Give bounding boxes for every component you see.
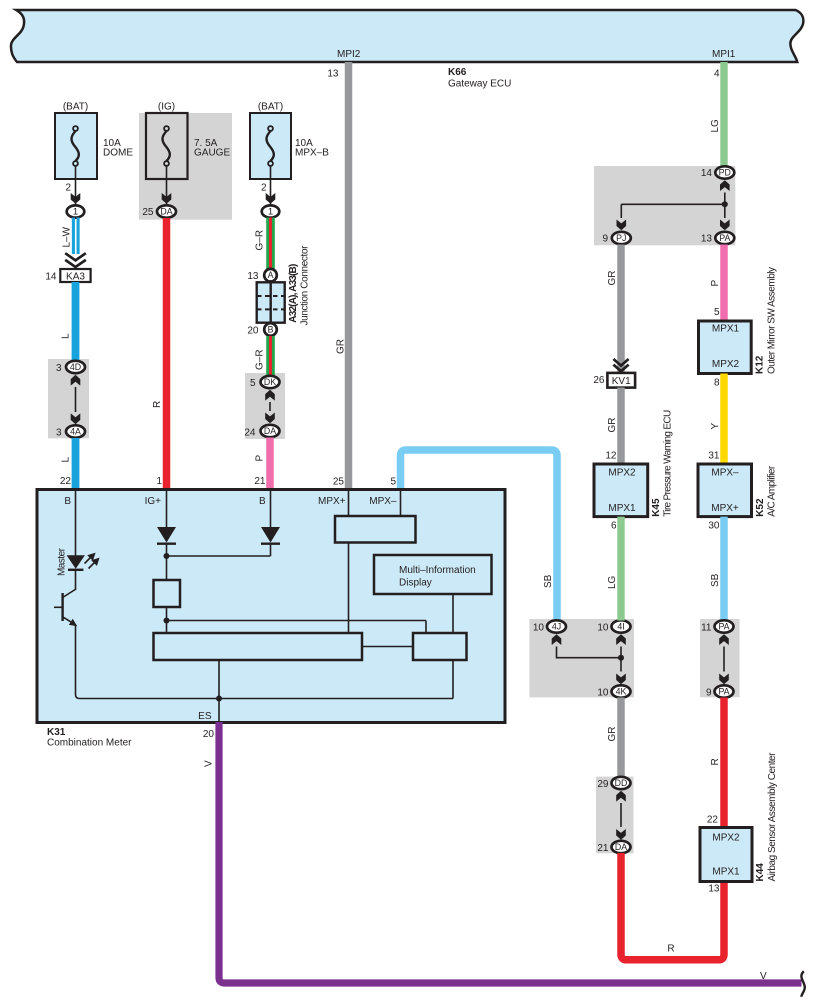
connector 4A pin 3 (56, 425, 85, 438)
svg-text:13: 13 (327, 69, 339, 80)
wire L (blue) 4A to meter pin 22 (60, 438, 76, 489)
shaded block around GAUGE fuse (139, 113, 232, 220)
shaded block around connectors 4J/4I/4K (529, 619, 634, 697)
svg-text:5: 5 (390, 477, 396, 488)
fuse 10A MPX-B (BAT) (250, 102, 329, 180)
svg-text:MPX1: MPX1 (608, 503, 636, 514)
connector 1 (MPX-B) (262, 205, 280, 217)
svg-text:21: 21 (254, 476, 266, 487)
connector B pin 20 (247, 323, 276, 336)
svg-text:Multi–Information: Multi–Information (399, 565, 476, 576)
node dot 4J/4I join (618, 655, 624, 661)
svg-text:DD: DD (615, 778, 628, 788)
wire SB (sky blue) meter pin 5 to connector 4J (390, 450, 557, 621)
shaded block around connectors PA/PA (700, 619, 740, 697)
connector DA pin 24 (244, 425, 279, 439)
svg-text:Tire Pressure Warning ECU: Tire Pressure Warning ECU (663, 410, 674, 517)
mating arrows DD to DA (616, 791, 626, 840)
node dot regulator branch (164, 618, 170, 624)
internal wire driver block to ES rail (452, 660, 454, 699)
connector 4J pin 10 (533, 620, 566, 633)
svg-text:GAUGE: GAUGE (194, 147, 230, 158)
svg-text:1: 1 (156, 476, 162, 487)
svg-text:V: V (760, 971, 767, 982)
connector PA pin 11 (701, 620, 733, 633)
internal wire LED to transistor (75, 571, 77, 590)
svg-text:MPX1: MPX1 (712, 324, 740, 335)
svg-text:4A: 4A (70, 427, 81, 437)
svg-text:10: 10 (597, 688, 609, 699)
node dot PD branch (722, 201, 728, 207)
diode D2 (B) (261, 527, 280, 544)
svg-text:3: 3 (56, 427, 62, 438)
connector 4I pin 10 (597, 620, 630, 633)
fuse 7.5A GAUGE (IG) (146, 102, 230, 180)
svg-text:Master: Master (57, 547, 68, 576)
internal wire MPX block to logic block (348, 543, 350, 634)
connector DK pin 5 (250, 376, 280, 389)
svg-text:26: 26 (593, 375, 605, 386)
internal wire pin1 IG+ (166, 491, 168, 527)
svg-text:20: 20 (203, 729, 215, 740)
svg-text:DK: DK (264, 377, 276, 387)
wire GR (gray) PJ to KV1 (607, 245, 621, 374)
svg-text:9: 9 (706, 688, 712, 699)
svg-text:P: P (255, 455, 266, 462)
driver block (small) (413, 633, 467, 660)
internal wire transistor emitter to ES rail (76, 625, 454, 699)
svg-text:GR: GR (335, 339, 346, 354)
continuation squiggle on wire V (801, 971, 804, 997)
internal wire pin21 B (270, 491, 272, 527)
svg-text:8: 8 (714, 378, 720, 389)
svg-text:1: 1 (268, 207, 273, 218)
wire G-R (green/red) connector 1 to junction connector A (255, 218, 271, 270)
svg-text:IG+: IG+ (145, 496, 162, 507)
wire L-W (blue/white) connector 1 to KA3 (62, 218, 79, 255)
svg-text:DA: DA (160, 207, 172, 217)
shaded block around connectors PD/PJ/PA (594, 166, 735, 245)
wire G-R (green/red) junction connector B to DK (255, 336, 271, 376)
wire LG (light green) K45 pin 6 to connector 4I (607, 517, 621, 621)
svg-text:PA: PA (719, 233, 730, 243)
svg-text:V: V (204, 760, 215, 767)
mating arrows 4I to 4K (616, 634, 626, 684)
K44 Airbag Sensor Assembly Center (700, 752, 778, 882)
mating arrows DK to DA (265, 390, 275, 424)
K52 A/C Amplifier (698, 464, 778, 517)
internal wire regulator to logic (167, 607, 427, 633)
svg-text:B: B (259, 496, 266, 507)
svg-text:MPX2: MPX2 (712, 832, 740, 843)
svg-text:3: 3 (56, 363, 62, 374)
logic block (long) (154, 633, 363, 660)
svg-text:2: 2 (261, 182, 267, 193)
node ES (198, 696, 222, 741)
svg-text:14: 14 (45, 272, 57, 283)
svg-text:Junction Connector: Junction Connector (300, 245, 311, 326)
svg-text:A: A (268, 270, 274, 280)
svg-text:DA: DA (615, 842, 627, 852)
svg-text:PJ: PJ (616, 233, 626, 243)
svg-text:14: 14 (701, 168, 713, 179)
connector DD pin 29 (597, 777, 630, 790)
svg-text:SB: SB (710, 573, 721, 587)
wire fuse DOME pin 2 to connector 1 (65, 166, 80, 206)
svg-text:(IG): (IG) (158, 102, 175, 113)
svg-text:22: 22 (60, 476, 72, 487)
svg-text:4D: 4D (70, 362, 81, 372)
svg-text:DOME: DOME (103, 147, 133, 158)
svg-text:L–W: L–W (62, 226, 73, 247)
svg-text:(BAT): (BAT) (258, 102, 283, 113)
svg-text:K45: K45 (651, 498, 662, 517)
svg-text:R: R (667, 944, 674, 955)
wire R (red) DA to K44 pin 13 (621, 853, 724, 960)
junction connector A32(A), A33(B) (257, 245, 311, 326)
shaded block around connectors DD/DA (596, 777, 634, 854)
svg-text:24: 24 (244, 427, 256, 438)
wire R (red) PA to K44 pin 22 (707, 698, 724, 828)
svg-text:SB: SB (543, 574, 554, 588)
svg-text:PD: PD (719, 168, 731, 178)
svg-text:B: B (268, 325, 274, 335)
connector A pin 13 (247, 269, 276, 282)
internal wire logic block to ES node (218, 660, 220, 722)
svg-text:30: 30 (708, 521, 720, 532)
svg-text:21: 21 (597, 843, 609, 854)
svg-text:MPX+: MPX+ (711, 503, 739, 514)
wire Y (yellow) K12 pin 8 to K52 pin 31 (708, 374, 724, 466)
svg-text:31: 31 (708, 451, 720, 462)
mating arrows 4J branch (552, 634, 621, 658)
node dot diode join (164, 553, 170, 559)
svg-text:6: 6 (611, 521, 617, 532)
svg-text:B: B (64, 496, 71, 507)
svg-text:L: L (61, 457, 72, 463)
shaded block around connectors DK/DA (245, 373, 285, 439)
connector 4D pin 3 (56, 361, 85, 374)
svg-text:MPI1: MPI1 (712, 49, 736, 60)
connector PA pin 9 (706, 685, 734, 698)
wire P (pink) DA to meter pin 21 (254, 438, 270, 490)
splice chevron on GR wire (613, 359, 628, 371)
svg-text:PA: PA (718, 622, 729, 632)
svg-text:11: 11 (701, 623, 712, 634)
svg-text:Display: Display (399, 578, 432, 589)
svg-text:K52: K52 (755, 498, 766, 517)
wire LG (light green) bus MPI1 pin 4 to connector PD (710, 62, 724, 167)
svg-text:KA3: KA3 (66, 271, 85, 282)
svg-text:Y: Y (710, 423, 721, 430)
combination meter K31 body (37, 490, 505, 749)
svg-text:MPX1: MPX1 (712, 867, 740, 878)
svg-text:GR: GR (607, 727, 618, 742)
internal wire diodes to node (167, 544, 271, 580)
svg-text:25: 25 (333, 477, 345, 488)
svg-text:25: 25 (142, 207, 154, 218)
svg-text:5: 5 (250, 378, 256, 389)
diode D1 (IG+) (157, 527, 176, 544)
K12 Outer Mirror SW Assembly (699, 267, 778, 374)
K45 Tire Pressure Warning ECU (594, 410, 674, 517)
svg-text:K66: K66 (448, 67, 467, 78)
svg-text:K31: K31 (47, 727, 66, 738)
svg-text:22: 22 (707, 815, 719, 826)
svg-text:13: 13 (247, 271, 259, 282)
svg-text:K44: K44 (755, 863, 766, 882)
svg-text:MPX2: MPX2 (712, 359, 740, 370)
svg-text:Outer Mirror SW Assembly: Outer Mirror SW Assembly (766, 267, 777, 374)
svg-text:Gateway ECU: Gateway ECU (448, 79, 511, 90)
svg-text:K12: K12 (755, 355, 766, 374)
connector PJ pin 9 (602, 232, 630, 245)
svg-text:LG: LG (607, 575, 618, 589)
svg-text:LG: LG (710, 119, 721, 133)
svg-text:L: L (61, 333, 72, 339)
bus bar MPI (CAN trunk) across top (11, 10, 803, 62)
wire L (blue) KA3 to connector 4D (61, 282, 76, 361)
wire GR (gray) KV1 to K45 pin 12 (605, 388, 621, 466)
svg-text:4K: 4K (616, 687, 627, 697)
MPX transceiver block (335, 516, 416, 543)
splice chevron on L-W wire (65, 253, 86, 267)
svg-text:4I: 4I (617, 622, 624, 632)
svg-text:Airbag Sensor Assembly Center: Airbag Sensor Assembly Center (767, 752, 778, 882)
wire fuse MPX-B pin 2 to connector 1 (261, 166, 275, 206)
svg-text:GR: GR (607, 418, 618, 433)
svg-text:MPX–B: MPX–B (295, 147, 329, 158)
wire R (red) connector DA to meter pin 1 (152, 218, 167, 489)
internal wire pin25 MPX+ (348, 491, 350, 516)
wire SB (sky blue) K52 pin 30 to connector PA (708, 517, 724, 621)
svg-text:KV1: KV1 (612, 376, 631, 387)
Multi-Information Display block (374, 555, 492, 594)
mating arrows 4D to 4A (71, 375, 81, 424)
svg-text:MPX–: MPX– (369, 496, 397, 507)
junction block KA3 pin 14 (45, 269, 90, 283)
wire fuse GAUGE to connector DA pin 25 (142, 166, 171, 218)
svg-text:R: R (710, 758, 721, 765)
internal wire logic to driver (362, 646, 413, 648)
svg-text:13: 13 (701, 234, 713, 245)
svg-text:4: 4 (714, 69, 720, 80)
wire GR (gray) 4K to connector DD (607, 698, 621, 778)
svg-text:4J: 4J (552, 622, 561, 632)
connector DA pin 21 (597, 841, 630, 854)
svg-text:A/C Amplifier: A/C Amplifier (767, 465, 778, 517)
svg-text:G–R: G–R (255, 349, 266, 370)
svg-text:P: P (710, 280, 721, 287)
svg-text:ES: ES (198, 711, 212, 722)
internal wire display to driver block (452, 594, 454, 633)
fuse 10A DOME (BAT) (55, 102, 133, 180)
regulator block (154, 580, 181, 607)
connector 1 (DOME) (67, 205, 85, 217)
junction block KV1 pin 26 (593, 373, 635, 388)
svg-text:20: 20 (247, 325, 259, 336)
svg-text:(BAT): (BAT) (63, 102, 88, 113)
svg-text:A32(A), A33(B): A32(A), A33(B) (288, 264, 299, 323)
transistor Q (master indicator driver) (54, 589, 77, 626)
svg-text:29: 29 (597, 779, 609, 790)
svg-text:MPX–: MPX– (711, 467, 739, 478)
svg-text:MPX+: MPX+ (318, 496, 346, 507)
svg-text:DA: DA (264, 426, 276, 436)
connector 4K pin 10 (597, 685, 630, 698)
shaded block around connectors 4D/4A (48, 359, 89, 438)
svg-text:10: 10 (533, 623, 545, 634)
mating arrows PD to PA and branch to PJ (617, 180, 730, 230)
internal wire pin5 MPX- (400, 491, 402, 516)
svg-text:Combination Meter: Combination Meter (47, 738, 132, 749)
svg-text:G–R: G–R (255, 230, 266, 251)
svg-text:MPX2: MPX2 (608, 467, 636, 478)
svg-text:10: 10 (597, 623, 609, 634)
connector PA pin 13 (701, 232, 734, 245)
connector PD pin 14 (701, 166, 734, 179)
wire V (violet) meter pin 20 to right edge (204, 722, 802, 983)
svg-text:9: 9 (602, 234, 608, 245)
svg-text:PA: PA (718, 687, 729, 697)
mating arrows PA to PA (719, 634, 729, 684)
svg-text:1: 1 (73, 207, 78, 218)
svg-text:2: 2 (65, 182, 71, 193)
svg-text:R: R (152, 401, 163, 408)
internal wire pin22 to LED (75, 491, 77, 556)
wire P (pink) PA to K12 pin 5 (710, 245, 724, 322)
connector DA (gauge feed) (157, 205, 176, 217)
svg-text:GR: GR (607, 271, 618, 286)
wire GR (gray) bus MPI2 pin 13 to meter pin 25 (327, 62, 348, 489)
svg-text:12: 12 (605, 451, 617, 462)
svg-text:MPI2: MPI2 (337, 49, 361, 60)
svg-text:5: 5 (714, 307, 720, 318)
svg-text:13: 13 (708, 884, 720, 895)
Master indicator LED (57, 547, 100, 576)
